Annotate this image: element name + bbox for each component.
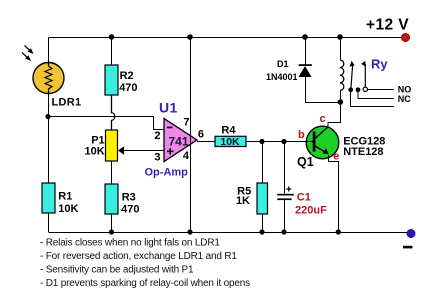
node C1/base junction — [281, 139, 286, 144]
LDR1 zigzag element — [45, 63, 52, 94]
wire inverting input from LDR junction — [49, 117, 165, 130]
plus input marker — [167, 148, 173, 154]
node top rail R2 junction — [109, 34, 115, 40]
capacitor C1 plate top — [277, 194, 294, 196]
svg-text:c: c — [320, 113, 326, 125]
wire wiper to pin3 — [123, 150, 164, 152]
wire R1 to bottom rail — [48, 213, 50, 232]
relay coil wire top — [340, 37, 342, 60]
wire C1 bottom — [284, 200, 286, 232]
node relay pole — [348, 87, 353, 92]
wire R5 top — [262, 142, 264, 184]
svg-text:741: 741 — [169, 134, 189, 148]
node top rail D1 junction — [302, 34, 308, 40]
svg-text:R2: R2 — [120, 70, 134, 82]
node bottom rail R5 junction — [259, 229, 264, 234]
LDR light arrow 1 — [25, 46, 33, 53]
resistor R1 — [42, 183, 55, 213]
svg-text:Op-Amp: Op-Amp — [145, 167, 189, 179]
diode D1 wire bottom — [306, 77, 341, 103]
node top rail pin7 junction — [187, 34, 193, 40]
svg-text:6: 6 — [198, 129, 204, 141]
wire LDR top — [48, 38, 50, 64]
resistor R3 — [105, 184, 118, 214]
node top rail relay junction — [337, 34, 343, 40]
svg-text:NTE128: NTE128 — [343, 146, 383, 158]
transistor Q1 body — [306, 126, 339, 159]
svg-text:1N4001: 1N4001 — [266, 72, 298, 82]
wire NC terminal — [358, 90, 394, 99]
Q1 emitter lead — [315, 146, 326, 153]
Q1 base lead — [306, 141, 313, 143]
svg-text:220uF: 220uF — [295, 205, 327, 217]
svg-text:2: 2 — [154, 130, 160, 142]
svg-text:D1: D1 — [277, 59, 289, 69]
svg-text:- For reversed action, exchang: - For reversed action, exchange LDR1 and… — [40, 251, 237, 262]
op-amp U1 — [164, 119, 197, 162]
relay coil Ry — [340, 60, 344, 90]
wire op-amp output to R4 — [197, 141, 215, 143]
wire emitter — [329, 155, 339, 232]
wire R5 bottom — [262, 214, 264, 232]
resistor R4 — [215, 136, 246, 146]
node coil/diode/collector junction — [338, 99, 344, 105]
svg-text:10K: 10K — [58, 203, 78, 215]
svg-text:470: 470 — [121, 204, 139, 216]
svg-text:1K: 1K — [236, 195, 250, 207]
svg-text:7: 7 — [183, 117, 189, 129]
node R5 junction — [259, 139, 264, 144]
svg-text:R1: R1 — [58, 190, 72, 202]
resistor R2 — [105, 65, 118, 95]
svg-text:R3: R3 — [122, 191, 136, 203]
minus input marker — [167, 127, 173, 129]
svg-text:+12 V: +12 V — [366, 17, 409, 34]
wire C1 top — [284, 142, 286, 194]
wire R4 to base — [246, 141, 307, 143]
svg-text:10K: 10K — [220, 136, 240, 148]
node LDR/R1 junction — [45, 114, 50, 119]
svg-text:Q1: Q1 — [297, 155, 314, 169]
node bottom rail C1 junction — [281, 229, 286, 234]
relay fixed contact arm — [364, 64, 366, 87]
svg-text:3: 3 — [154, 151, 160, 163]
svg-text:- D1 prevents sparking of rela: - D1 prevents sparking of relay-coil whe… — [40, 278, 250, 289]
capacitor C1 plate bottom — [277, 198, 291, 200]
node relay NO contact — [363, 87, 367, 91]
wire bottom rail — [49, 232, 412, 234]
svg-text:4: 4 — [183, 150, 190, 162]
wire R3 to bottom rail — [111, 214, 113, 232]
diode D1 body — [299, 66, 312, 77]
relay coil wire bottom — [340, 90, 342, 102]
terminal +12V — [402, 34, 410, 42]
C1 polarity plus — [286, 187, 291, 192]
diode D1 cathode bar — [299, 64, 312, 66]
wire LDR bottom — [48, 94, 50, 117]
LDR1 body — [33, 63, 64, 94]
wire R2 top — [111, 37, 113, 65]
wire common terminal — [351, 90, 394, 107]
resistor R5 — [257, 183, 268, 214]
Q1 emitter arrowhead — [323, 148, 329, 154]
svg-text:- Relais closes when no light: - Relais closes when no light fals on LD… — [40, 238, 220, 249]
diode D1 wire top — [305, 37, 307, 65]
Q1 collector lead — [315, 127, 328, 139]
svg-text:C1: C1 — [297, 192, 311, 204]
svg-text:470: 470 — [119, 82, 137, 94]
wire collector — [328, 102, 341, 127]
node bottom rail pin4 junction — [187, 229, 192, 234]
wire P1 to R3 — [111, 161, 113, 184]
svg-text:e: e — [333, 151, 339, 163]
wire R2 bottom with hop over input wire — [112, 95, 115, 130]
svg-text:R4: R4 — [221, 124, 236, 136]
node bottom rail emitter junction — [336, 229, 341, 234]
wire NO terminal — [368, 89, 395, 91]
potentiometer P1 — [106, 130, 118, 161]
svg-text:b: b — [298, 129, 305, 141]
Q1 base bar — [313, 132, 316, 152]
label minus sign — [403, 246, 412, 249]
svg-text:10K: 10K — [85, 145, 105, 157]
node bottom rail R3 junction — [109, 229, 114, 234]
terminal minus — [407, 230, 415, 238]
wire pin7/pin4 vertical supply — [190, 37, 192, 232]
svg-text:LDR1: LDR1 — [52, 97, 82, 109]
LDR light arrow 2 — [22, 53, 30, 60]
svg-text:- Sensitivity can be adjusted: - Sensitivity can be adjusted with P1 — [40, 265, 194, 276]
relay armature — [351, 66, 353, 90]
wire left branch down to R1 — [48, 117, 50, 184]
svg-text:Ry: Ry — [371, 57, 388, 72]
wire top rail — [49, 37, 406, 39]
P1 wiper arrow — [118, 146, 124, 154]
node relay NC contact — [356, 87, 361, 92]
svg-text:U1: U1 — [159, 100, 178, 116]
svg-text:NC: NC — [398, 94, 411, 104]
